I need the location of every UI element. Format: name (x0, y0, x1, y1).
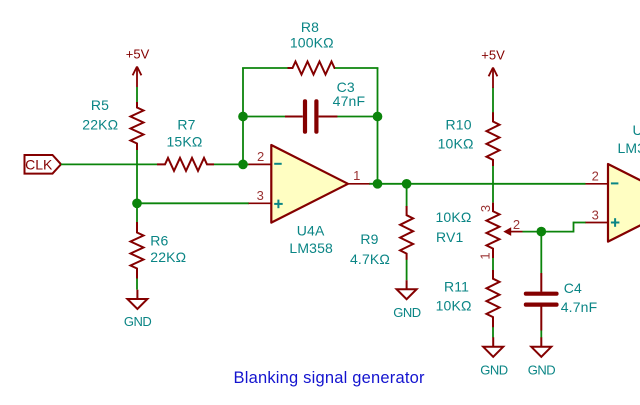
svg-text:CLK: CLK (25, 156, 53, 172)
svg-text:10KΩ: 10KΩ (436, 298, 472, 314)
U4A plus mark (274, 203, 283, 205)
power +5V (left) (133, 67, 142, 88)
wire C4 to GND (540, 331, 542, 338)
resistor R6 (131, 222, 144, 279)
wire R10 to RV1 (492, 166, 494, 203)
junction node RV1 wiper (536, 227, 546, 237)
wire RV1 to R11 (492, 258, 494, 270)
svg-text:3: 3 (478, 205, 493, 212)
capacitor C3 (285, 116, 303, 118)
svg-text:4.7nF: 4.7nF (561, 299, 598, 315)
U4B plus mark (611, 222, 620, 224)
svg-text:2: 2 (257, 149, 264, 164)
resistor R5 (131, 102, 144, 150)
wire CLK to R7 (61, 163, 157, 165)
wire corner up (573, 222, 575, 233)
power +5V (right) (489, 68, 498, 89)
global label CLK (25, 155, 62, 174)
op-amp U4B (608, 164, 640, 242)
junction node U4A pin2 (238, 160, 248, 170)
resistor R9 (400, 206, 413, 260)
wire C3 right (337, 116, 378, 118)
wire R7 to U4A pin2 (214, 163, 249, 165)
svg-text:15KΩ: 15KΩ (167, 134, 203, 150)
svg-text:1: 1 (353, 168, 360, 183)
junction node C3 right (373, 112, 383, 122)
ground C4 (531, 337, 551, 357)
wire RV1 wiper to corner (523, 231, 574, 233)
wire R6 to GND (136, 278, 138, 290)
capacitor C4 (540, 273, 542, 292)
wire to U4B pin3 (574, 222, 587, 224)
svg-text:3: 3 (592, 207, 599, 222)
svg-text:Blanking signal generator: Blanking signal generator (234, 369, 426, 387)
resistor R7 (157, 158, 214, 171)
wire node to U4A pin3 (137, 202, 249, 204)
svg-text:+5V: +5V (126, 47, 150, 62)
svg-text:R7: R7 (177, 117, 195, 133)
svg-text:100KΩ: 100KΩ (290, 35, 334, 51)
svg-text:10KΩ: 10KΩ (438, 135, 474, 151)
ground R6 (127, 290, 147, 309)
resistor R10 (487, 112, 500, 166)
U4B minus mark (611, 182, 619, 184)
svg-text:GND: GND (393, 305, 421, 320)
svg-text:U4B: U4B (633, 122, 640, 138)
U4B pin3 stub (586, 222, 609, 224)
wire feedback right vertical (377, 68, 379, 184)
svg-text:GND: GND (124, 314, 152, 329)
U4A pin1 stub (347, 183, 370, 185)
U4A minus mark (274, 163, 282, 165)
wire R9 to GND (406, 260, 408, 281)
U4B pin2 stub (586, 183, 609, 185)
wire R8 to corner (335, 67, 378, 69)
wire R11 to GND (492, 327, 494, 338)
op-amp U4A (271, 145, 348, 223)
U4A pin3 stub (249, 202, 272, 204)
svg-text:1: 1 (477, 252, 492, 259)
ground R9 (397, 280, 417, 299)
wire top to R8 (242, 67, 287, 69)
wire wiper node down to C4 (540, 232, 542, 273)
svg-text:47nF: 47nF (333, 93, 366, 109)
svg-text:4.7KΩ: 4.7KΩ (350, 251, 390, 267)
ground R11 (483, 337, 503, 357)
resistor R11 (487, 270, 500, 327)
svg-text:C4: C4 (564, 280, 582, 296)
wire +5V to R5 (136, 87, 138, 102)
RV1 wiper arrow (503, 227, 511, 236)
svg-text:R9: R9 (360, 231, 378, 247)
svg-text:LM358: LM358 (618, 140, 640, 156)
svg-text:GND: GND (528, 363, 556, 378)
svg-text:R11: R11 (444, 278, 469, 294)
junction node C3 left (238, 112, 248, 122)
svg-text:22KΩ: 22KΩ (150, 249, 186, 265)
svg-text:R10: R10 (446, 117, 472, 133)
resistor R8 (288, 62, 336, 75)
svg-text:2: 2 (513, 217, 520, 232)
junction node output B (402, 179, 412, 189)
svg-text:3: 3 (257, 188, 264, 203)
svg-text:GND: GND (480, 363, 508, 378)
svg-text:R6: R6 (150, 233, 168, 249)
wire C3 left (243, 116, 285, 118)
svg-text:LM358: LM358 (289, 240, 333, 256)
svg-text:R5: R5 (91, 97, 109, 113)
svg-text:+5V: +5V (481, 48, 505, 63)
svg-text:RV1: RV1 (436, 229, 463, 245)
potentiometer RV1 (487, 203, 500, 258)
svg-text:2: 2 (592, 169, 599, 184)
U4A pin2 stub (249, 163, 272, 165)
wire feedback left vertical (242, 68, 244, 165)
svg-text:U4A: U4A (297, 222, 325, 238)
svg-text:10KΩ: 10KΩ (436, 209, 472, 225)
junction node output A (373, 179, 383, 189)
wire +5V to R10 (492, 88, 494, 113)
wire node to R9 (406, 184, 408, 207)
svg-text:22KΩ: 22KΩ (82, 117, 118, 133)
junction node R5 R6 divider (132, 198, 142, 208)
svg-text:R8: R8 (301, 19, 319, 35)
wire R5 to R6 vertical (136, 150, 138, 222)
wire U4A output to U4B pin2 (369, 183, 586, 185)
